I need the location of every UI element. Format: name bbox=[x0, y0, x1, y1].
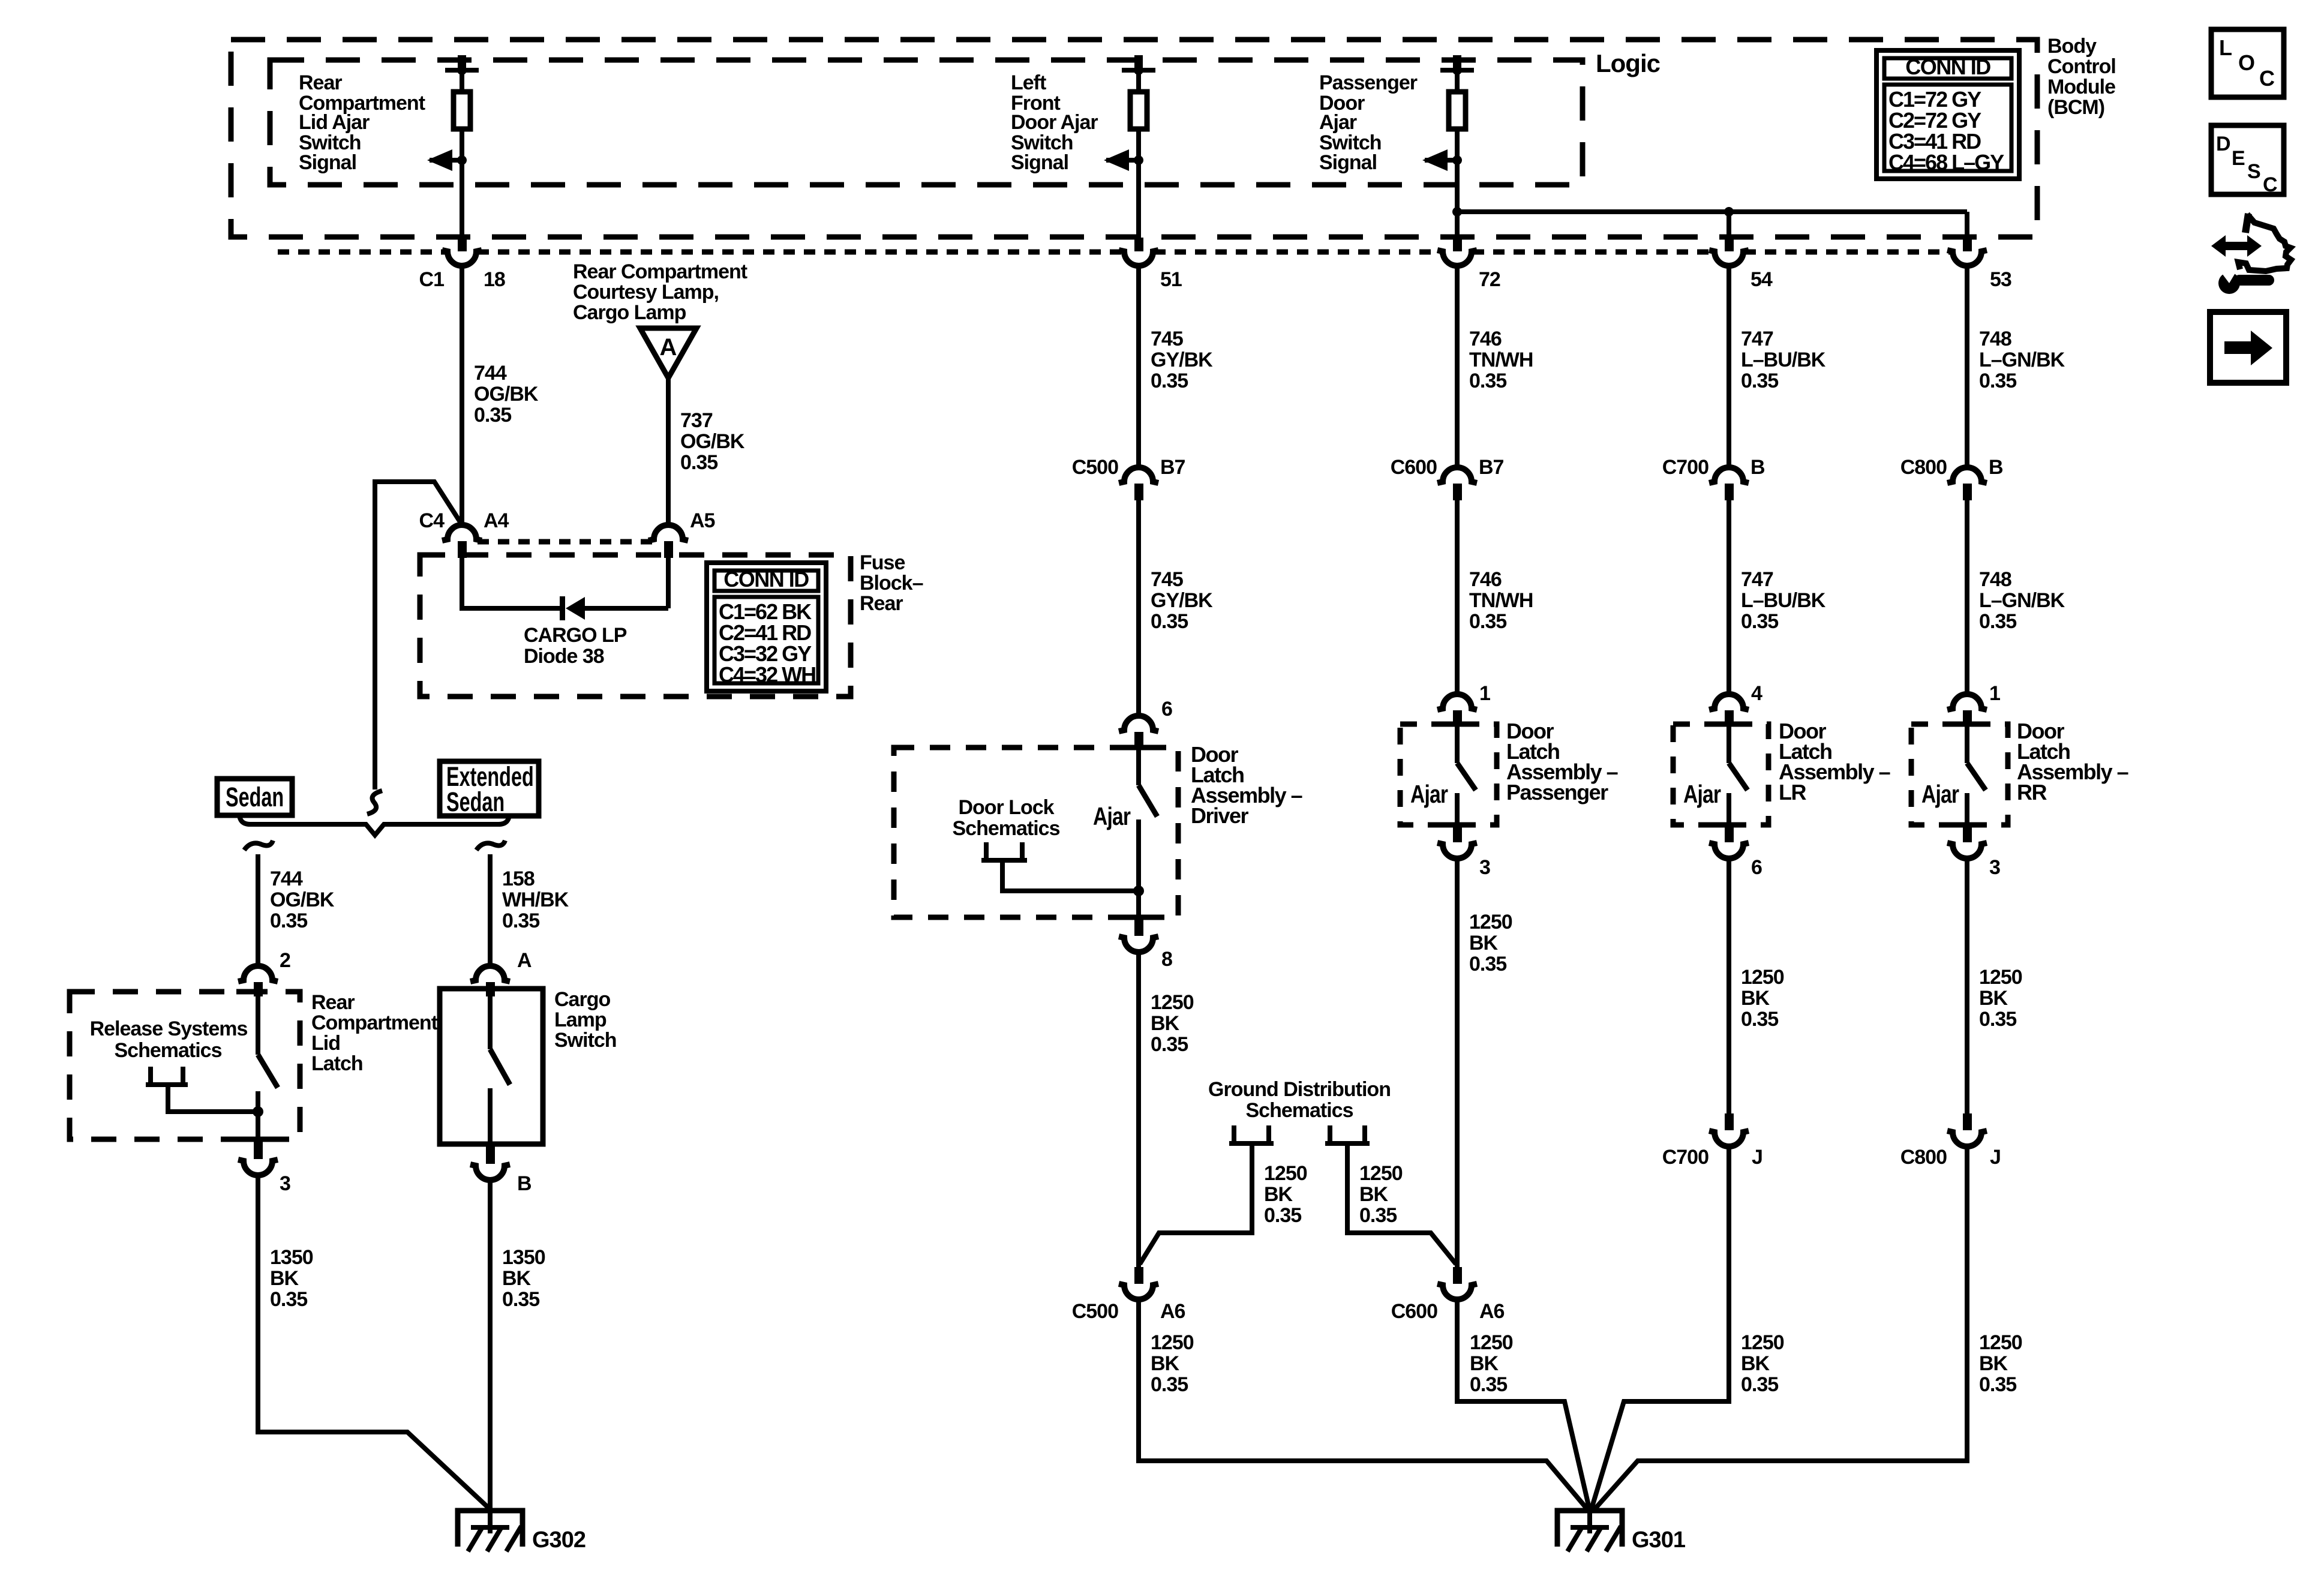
connector C500 pin A6 bbox=[1072, 1267, 1185, 1323]
resistor (left front door ajar pull-up) bbox=[1122, 55, 1155, 160]
svg-text:3: 3 bbox=[1479, 856, 1490, 879]
RR latch dashed box bbox=[1911, 724, 2008, 825]
Fuse Block Rear dashed box bbox=[420, 555, 851, 697]
svg-text:WH/BK: WH/BK bbox=[502, 888, 569, 911]
wire 737 OG/BK (triangle A to A5) bbox=[666, 378, 671, 525]
switch ajar driver bbox=[1117, 748, 1157, 917]
connector pin 2 (lid latch) bbox=[238, 949, 290, 996]
svg-text:BK: BK bbox=[1741, 987, 1770, 1010]
svg-text:Passenger: Passenger bbox=[1319, 71, 1418, 94]
wire 744 OG/BK (BCM to C4) bbox=[460, 266, 464, 525]
svg-text:D: D bbox=[2216, 133, 2230, 155]
connector C600 pin A6 bbox=[1391, 1267, 1505, 1323]
wire 745 GY/BK upper bbox=[1136, 266, 1141, 467]
svg-text:E: E bbox=[2232, 147, 2245, 170]
svg-text:747: 747 bbox=[1741, 568, 1773, 591]
connector pin 3 (lid latch bottom) bbox=[236, 1139, 290, 1195]
svg-text:Logic: Logic bbox=[1596, 49, 1661, 77]
svg-text:Rear Compartment: Rear Compartment bbox=[573, 260, 747, 283]
svg-text:Release Systems: Release Systems bbox=[90, 1017, 248, 1040]
schematic reference claw (ground distribution right) bbox=[1325, 1125, 1456, 1264]
wire passenger ground run bbox=[1457, 1299, 1590, 1511]
svg-text:BK: BK bbox=[1470, 1352, 1499, 1375]
svg-text:Schematics: Schematics bbox=[953, 817, 1060, 840]
svg-text:Ajar: Ajar bbox=[1319, 111, 1357, 134]
svg-text:BK: BK bbox=[1359, 1183, 1389, 1206]
icon LOC box bbox=[2211, 29, 2284, 97]
svg-text:(BCM): (BCM) bbox=[2047, 96, 2104, 119]
svg-text:Left: Left bbox=[1011, 71, 1046, 94]
svg-text:C4=32 WH: C4=32 WH bbox=[719, 662, 815, 687]
svg-text:745: 745 bbox=[1151, 568, 1183, 591]
svg-text:L–GN/BK: L–GN/BK bbox=[1979, 349, 2065, 371]
connector pin 1 (passenger latch) bbox=[1437, 682, 1490, 725]
wire 1250 BK (LR) bbox=[1727, 858, 1731, 1113]
Sedan option box bbox=[217, 779, 292, 815]
svg-text:0.35: 0.35 bbox=[1741, 610, 1778, 633]
schematic reference claw (release systems) bbox=[146, 1067, 263, 1117]
svg-text:747: 747 bbox=[1741, 328, 1773, 350]
svg-text:1250: 1250 bbox=[1151, 991, 1194, 1014]
resistor (passenger door ajar pull-up) bbox=[1440, 55, 1474, 160]
svg-text:C600: C600 bbox=[1391, 456, 1437, 479]
svg-text:J: J bbox=[1752, 1146, 1762, 1169]
svg-text:0.35: 0.35 bbox=[1469, 953, 1506, 975]
svg-text:C800: C800 bbox=[1900, 456, 1947, 479]
svg-text:748: 748 bbox=[1979, 328, 2011, 350]
svg-text:J: J bbox=[1990, 1146, 2001, 1169]
svg-text:0.35: 0.35 bbox=[1151, 610, 1188, 633]
svg-text:6: 6 bbox=[1751, 856, 1762, 879]
svg-text:0.35: 0.35 bbox=[1359, 1204, 1397, 1227]
BCM CONN ID table bbox=[1876, 50, 2019, 179]
wire 1250 BK (LR to G301) bbox=[1591, 1146, 1729, 1511]
svg-text:0.35: 0.35 bbox=[474, 404, 511, 427]
wire 748 L-GN/BK lower bbox=[1965, 500, 1969, 695]
connector pin B (cargo lamp switch bottom) bbox=[470, 1146, 532, 1195]
svg-text:Compartment: Compartment bbox=[311, 1011, 438, 1034]
svg-text:C500: C500 bbox=[1072, 456, 1118, 479]
svg-text:Ground Distribution: Ground Distribution bbox=[1208, 1078, 1391, 1101]
svg-text:L–BU/BK: L–BU/BK bbox=[1741, 589, 1826, 612]
node A triangle (Rear Compartment Courtesy Lamp) bbox=[640, 328, 696, 378]
svg-text:S: S bbox=[2247, 160, 2260, 183]
svg-text:OG/BK: OG/BK bbox=[474, 383, 539, 406]
svg-text:Module: Module bbox=[2047, 76, 2115, 98]
svg-text:BK: BK bbox=[1469, 932, 1499, 954]
svg-text:Rear: Rear bbox=[311, 991, 355, 1014]
wire 1350 BK left bbox=[258, 1175, 489, 1508]
svg-text:0.35: 0.35 bbox=[1151, 1373, 1188, 1396]
svg-text:8: 8 bbox=[1161, 948, 1172, 971]
svg-text:C1: C1 bbox=[419, 268, 445, 291]
svg-text:6: 6 bbox=[1161, 698, 1172, 721]
svg-text:C600: C600 bbox=[1391, 1300, 1437, 1323]
svg-text:1250: 1250 bbox=[1979, 1331, 2022, 1354]
svg-text:0.35: 0.35 bbox=[1469, 370, 1506, 392]
switch cargo lamp bbox=[490, 996, 510, 1144]
wire 746 TN/WH lower bbox=[1455, 500, 1460, 695]
svg-text:Rear: Rear bbox=[299, 71, 342, 94]
svg-text:746: 746 bbox=[1469, 328, 1502, 350]
connector pin 6 (LR latch bottom) bbox=[1707, 825, 1762, 879]
connector C800 pin J bbox=[1900, 1113, 2001, 1169]
connector pin A5 bbox=[648, 509, 715, 558]
wire break curl at brace top bbox=[367, 791, 382, 814]
svg-text:0.35: 0.35 bbox=[1979, 1008, 2016, 1031]
svg-text:B: B bbox=[1989, 456, 2003, 479]
svg-text:1350: 1350 bbox=[270, 1246, 313, 1269]
svg-text:Diode 38: Diode 38 bbox=[524, 645, 604, 668]
svg-text:Ajar: Ajar bbox=[1093, 803, 1131, 831]
wire 2 to BCM edge bbox=[1136, 160, 1141, 238]
svg-text:GY/BK: GY/BK bbox=[1151, 349, 1213, 371]
svg-text:Lamp: Lamp bbox=[554, 1008, 606, 1031]
svg-text:0.35: 0.35 bbox=[270, 909, 307, 932]
svg-text:B: B bbox=[1750, 456, 1765, 479]
svg-text:Cargo: Cargo bbox=[554, 988, 610, 1011]
svg-text:Sedan: Sedan bbox=[446, 788, 505, 817]
BCM outer dashed box bbox=[231, 40, 2037, 237]
svg-text:3: 3 bbox=[280, 1172, 290, 1195]
wire break curl sedan bbox=[244, 840, 273, 850]
svg-text:0.35: 0.35 bbox=[502, 1288, 539, 1311]
svg-text:0.35: 0.35 bbox=[1151, 1033, 1188, 1056]
svg-text:BK: BK bbox=[1979, 987, 2008, 1010]
svg-text:1250: 1250 bbox=[1979, 966, 2022, 989]
svg-text:Courtesy Lamp,: Courtesy Lamp, bbox=[573, 281, 719, 304]
connector C700 pin B bbox=[1662, 456, 1765, 500]
svg-text:748: 748 bbox=[1979, 568, 2011, 591]
svg-text:3: 3 bbox=[1989, 856, 2000, 879]
svg-text:C: C bbox=[2259, 66, 2275, 91]
svg-text:Passenger: Passenger bbox=[1506, 780, 1608, 804]
svg-text:0.35: 0.35 bbox=[1741, 1373, 1778, 1396]
svg-text:0.35: 0.35 bbox=[1264, 1204, 1301, 1227]
svg-text:1250: 1250 bbox=[1469, 911, 1512, 933]
ground G302 bbox=[458, 1511, 585, 1553]
svg-text:Ajar: Ajar bbox=[1683, 781, 1721, 809]
connector pin 53 bbox=[1947, 238, 2011, 291]
svg-text:C4: C4 bbox=[419, 509, 445, 532]
svg-text:Signal: Signal bbox=[299, 151, 356, 174]
svg-text:1350: 1350 bbox=[502, 1246, 545, 1269]
wire 1350 BK right bbox=[488, 1180, 493, 1509]
svg-text:Control: Control bbox=[2047, 55, 2116, 78]
svg-text:1250: 1250 bbox=[1264, 1162, 1307, 1185]
svg-text:1: 1 bbox=[1479, 682, 1490, 705]
svg-text:L–BU/BK: L–BU/BK bbox=[1741, 349, 1826, 371]
svg-text:0.35: 0.35 bbox=[1979, 610, 2016, 633]
svg-text:2: 2 bbox=[280, 949, 290, 972]
wire branch to pins 54/53 bbox=[1452, 207, 1967, 238]
svg-text:B7: B7 bbox=[1479, 456, 1504, 479]
diode CARGO LP Diode 38 bbox=[560, 596, 668, 620]
svg-text:Switch: Switch bbox=[554, 1029, 617, 1052]
svg-text:A: A bbox=[660, 334, 677, 361]
svg-text:4: 4 bbox=[1751, 682, 1762, 705]
svg-text:Fuse: Fuse bbox=[860, 551, 905, 574]
wire break curl extended sedan bbox=[476, 840, 505, 850]
svg-text:Latch: Latch bbox=[311, 1052, 363, 1075]
svg-text:O: O bbox=[2238, 50, 2254, 75]
connector C500 pin B7 bbox=[1072, 456, 1185, 500]
svg-text:72: 72 bbox=[1479, 268, 1500, 291]
svg-text:Schematics: Schematics bbox=[1246, 1099, 1353, 1122]
wire 748 L-GN/BK upper bbox=[1965, 266, 1969, 467]
svg-text:Ajar: Ajar bbox=[1410, 781, 1448, 809]
wire inside fuse block right bbox=[666, 558, 671, 608]
svg-text:BK: BK bbox=[1741, 1352, 1770, 1375]
svg-text:0.35: 0.35 bbox=[1741, 1008, 1778, 1031]
connector pin A (cargo lamp switch) bbox=[470, 949, 532, 996]
wire inside fuse block left bbox=[462, 558, 561, 608]
svg-text:A5: A5 bbox=[690, 509, 715, 532]
svg-text:Body: Body bbox=[2047, 35, 2097, 58]
connector C1 pin 18 bbox=[419, 238, 505, 291]
svg-text:18: 18 bbox=[484, 268, 505, 291]
svg-text:C800: C800 bbox=[1900, 1146, 1947, 1169]
svg-text:L: L bbox=[2219, 35, 2232, 60]
Extended Sedan option box bbox=[440, 761, 539, 817]
svg-text:53: 53 bbox=[1990, 268, 2011, 291]
connector row dotted line C4-A5 bbox=[478, 539, 653, 545]
wire 1250 BK (driver) bbox=[1136, 952, 1141, 1268]
Fuse block CONN ID table bbox=[707, 563, 826, 691]
svg-text:BK: BK bbox=[1151, 1352, 1180, 1375]
svg-text:A6: A6 bbox=[1479, 1300, 1505, 1323]
svg-text:LR: LR bbox=[1779, 780, 1806, 804]
connector C600 pin B7 bbox=[1391, 456, 1504, 500]
connector pin 8 (driver latch bottom) bbox=[1117, 917, 1172, 971]
svg-text:Lid: Lid bbox=[311, 1032, 340, 1055]
wire 3 to BCM edge bbox=[1455, 160, 1460, 238]
wire 746 TN/WH upper bbox=[1455, 266, 1460, 467]
connector pin 51 bbox=[1119, 238, 1182, 291]
svg-text:0.35: 0.35 bbox=[1470, 1373, 1507, 1396]
connector pin 3 (RR latch bottom) bbox=[1945, 825, 2000, 879]
svg-text:1250: 1250 bbox=[1470, 1331, 1513, 1354]
svg-text:BK: BK bbox=[270, 1267, 299, 1290]
svg-text:TN/WH: TN/WH bbox=[1469, 349, 1533, 371]
svg-text:B: B bbox=[517, 1172, 532, 1195]
svg-text:CONN ID: CONN ID bbox=[723, 567, 809, 592]
svg-text:1250: 1250 bbox=[1741, 1331, 1784, 1354]
svg-text:158: 158 bbox=[502, 867, 535, 890]
svg-text:Signal: Signal bbox=[1319, 151, 1377, 174]
wire 1250 BK (passenger) bbox=[1455, 858, 1460, 1268]
svg-text:Signal: Signal bbox=[1011, 151, 1068, 174]
svg-text:0.35: 0.35 bbox=[1151, 370, 1188, 392]
wire extended sedan drop 158 WH/BK bbox=[488, 854, 493, 966]
svg-text:746: 746 bbox=[1469, 568, 1502, 591]
connector pin 1 (RR latch) bbox=[1947, 682, 2000, 725]
schematic reference claw (ground distribution left) bbox=[1140, 1125, 1274, 1264]
Cargo Lamp Switch box bbox=[440, 989, 543, 1144]
icon DESC box bbox=[2211, 125, 2284, 196]
switch rear compartment lid latch bbox=[236, 992, 278, 1139]
svg-text:Door Ajar: Door Ajar bbox=[1011, 111, 1098, 134]
svg-text:0.35: 0.35 bbox=[502, 909, 539, 932]
svg-text:Rear: Rear bbox=[860, 592, 903, 615]
svg-text:C4=68 L–GY: C4=68 L–GY bbox=[1888, 150, 2004, 175]
wire branch to sedan brace bbox=[375, 482, 461, 789]
Logic inner dashed box bbox=[270, 60, 1583, 185]
svg-text:1250: 1250 bbox=[1741, 966, 1784, 989]
svg-text:0.35: 0.35 bbox=[1469, 610, 1506, 633]
svg-text:Ajar: Ajar bbox=[1921, 781, 1959, 809]
connector pin 3 (passenger latch bottom) bbox=[1436, 825, 1490, 879]
wire sedan drop 744 OG/BK bbox=[256, 854, 260, 966]
svg-text:745: 745 bbox=[1151, 328, 1183, 350]
signal arrow wire 1 bbox=[427, 149, 467, 171]
Door Lock Schematics dashed box (driver latch) bbox=[894, 748, 1178, 917]
svg-text:G302: G302 bbox=[532, 1527, 585, 1553]
svg-text:1: 1 bbox=[1989, 682, 2000, 705]
switch ajar RR bbox=[1945, 724, 1986, 825]
svg-text:C: C bbox=[2263, 173, 2277, 196]
connector C700 pin J bbox=[1662, 1113, 1762, 1169]
wire 747 L-BU/BK lower bbox=[1727, 500, 1731, 695]
ground G301 bbox=[1557, 1511, 1686, 1553]
wire 1250 BK (RR to G301) bbox=[1593, 1146, 1967, 1511]
svg-text:B7: B7 bbox=[1160, 456, 1185, 479]
svg-text:TN/WH: TN/WH bbox=[1469, 589, 1533, 612]
wire 747 L-BU/BK upper bbox=[1727, 266, 1731, 467]
connector pin 54 bbox=[1709, 238, 1773, 291]
resistor R (lid ajar switch signal pull-up) bbox=[445, 55, 479, 160]
connector pin 72 bbox=[1437, 238, 1500, 291]
wire 1250 BK (RR) bbox=[1965, 858, 1969, 1113]
svg-text:A: A bbox=[517, 949, 532, 972]
svg-text:Block–: Block– bbox=[860, 572, 923, 595]
svg-text:GY/BK: GY/BK bbox=[1151, 589, 1213, 612]
svg-text:OG/BK: OG/BK bbox=[270, 888, 335, 911]
icon arrow box bbox=[2210, 312, 2286, 383]
wire driver ground run bbox=[1139, 1299, 1589, 1511]
svg-text:BK: BK bbox=[1979, 1352, 2008, 1375]
svg-text:Door Lock: Door Lock bbox=[958, 796, 1054, 819]
svg-text:1250: 1250 bbox=[1151, 1331, 1194, 1354]
signal arrow wire 3 bbox=[1422, 149, 1462, 171]
svg-text:Cargo Lamp: Cargo Lamp bbox=[573, 301, 686, 324]
svg-text:RR: RR bbox=[2017, 780, 2047, 804]
connector pin 6 (driver latch) bbox=[1119, 698, 1172, 748]
svg-text:737: 737 bbox=[680, 409, 713, 432]
svg-text:C500: C500 bbox=[1072, 1300, 1118, 1323]
svg-text:0.35: 0.35 bbox=[680, 451, 717, 474]
svg-text:C700: C700 bbox=[1662, 1146, 1709, 1169]
svg-text:1250: 1250 bbox=[1359, 1162, 1403, 1185]
schematic reference claw (door lock) bbox=[981, 842, 1144, 896]
LR latch dashed box bbox=[1673, 724, 1768, 825]
switch ajar passenger bbox=[1436, 724, 1476, 825]
svg-text:0.35: 0.35 bbox=[1979, 370, 2016, 392]
brace (option split) bbox=[239, 813, 509, 835]
connector pin 4 (LR latch) bbox=[1709, 682, 1762, 725]
connector C4 pin A4 bbox=[419, 509, 509, 558]
wire 1 to BCM edge bbox=[460, 160, 464, 238]
svg-text:Lid Ajar: Lid Ajar bbox=[299, 111, 370, 134]
svg-text:0.35: 0.35 bbox=[1979, 1373, 2016, 1396]
svg-text:0.35: 0.35 bbox=[1741, 370, 1778, 392]
icon service information (double arrow, outline, wrench) bbox=[2211, 214, 2291, 294]
switch ajar LR bbox=[1707, 724, 1747, 825]
connector C800 pin B bbox=[1900, 456, 2003, 500]
svg-text:BK: BK bbox=[502, 1267, 532, 1290]
svg-text:744: 744 bbox=[270, 867, 303, 890]
svg-text:BK: BK bbox=[1151, 1012, 1180, 1035]
svg-text:Schematics: Schematics bbox=[115, 1039, 222, 1062]
svg-text:BK: BK bbox=[1264, 1183, 1293, 1206]
svg-text:CARGO LP: CARGO LP bbox=[524, 624, 627, 647]
BCM connector row dotted line bbox=[278, 250, 1951, 255]
svg-text:A4: A4 bbox=[484, 509, 509, 532]
passenger latch dashed box bbox=[1400, 724, 1497, 825]
svg-text:744: 744 bbox=[474, 362, 507, 385]
svg-text:51: 51 bbox=[1160, 268, 1182, 291]
svg-text:0.35: 0.35 bbox=[270, 1288, 307, 1311]
svg-text:Sedan: Sedan bbox=[226, 783, 284, 812]
svg-text:OG/BK: OG/BK bbox=[680, 430, 745, 453]
svg-text:A6: A6 bbox=[1160, 1300, 1185, 1323]
signal arrow wire 2 bbox=[1104, 149, 1143, 171]
svg-text:G301: G301 bbox=[1632, 1527, 1686, 1553]
svg-text:C700: C700 bbox=[1662, 456, 1709, 479]
Release Systems Schematics dashed box bbox=[70, 992, 300, 1139]
svg-text:L–GN/BK: L–GN/BK bbox=[1979, 589, 2065, 612]
svg-text:CONN ID: CONN ID bbox=[1905, 55, 1990, 79]
svg-text:Driver: Driver bbox=[1191, 803, 1249, 828]
svg-text:54: 54 bbox=[1750, 268, 1773, 291]
wire 745 GY/BK lower bbox=[1136, 500, 1141, 716]
